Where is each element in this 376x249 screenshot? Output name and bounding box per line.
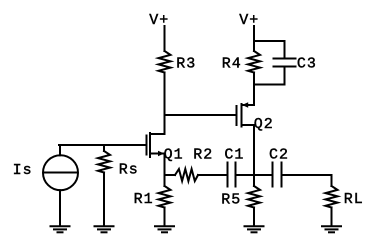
resistor R5: [248, 186, 260, 208]
wire V+ stub to R4: [253, 26, 255, 51]
wire R5 top: [253, 175, 255, 186]
wire Q1 drain node to Q2 gate: [165, 114, 237, 116]
wire signal node to R2: [165, 174, 176, 176]
svg-text:V+: V+: [149, 12, 169, 29]
wire R4 bottom and junction bar to Q2 drain: [254, 73, 285, 106]
ground (under Is): [50, 226, 71, 232]
wire R5 bottom: [253, 208, 255, 226]
wire V+ stub to R3: [164, 26, 166, 51]
wire RL bottom: [331, 208, 333, 226]
wire branch to C3 top: [254, 41, 285, 58]
capacitor C2: [273, 162, 282, 188]
svg-text:V+: V+: [239, 12, 259, 29]
svg-text:Is: Is: [13, 162, 33, 179]
svg-text:Rs: Rs: [119, 162, 139, 179]
resistor Rs: [98, 151, 110, 173]
resistor RL: [326, 186, 338, 208]
ground (under R5): [244, 226, 265, 232]
capacitor C1: [228, 162, 236, 188]
wire Is bottom: [59, 190, 61, 225]
svg-text:Q1: Q1: [164, 147, 184, 164]
wire Rs bottom: [103, 173, 105, 226]
svg-text:R2: R2: [193, 147, 213, 164]
svg-text:RL: RL: [344, 191, 364, 208]
transistor Q2: [230, 102, 254, 175]
wire R3 bottom to Q1 drain: [164, 73, 166, 135]
svg-text:C1: C1: [224, 147, 244, 164]
resistor R2: [175, 169, 198, 181]
current source Is: [43, 155, 78, 190]
wire R1 bottom: [164, 208, 166, 226]
wire C3 bottom: [284, 68, 286, 85]
resistor R1: [159, 186, 171, 208]
wire C1 to node and C2: [237, 174, 272, 176]
svg-text:R5: R5: [221, 192, 241, 209]
svg-text:R1: R1: [134, 191, 154, 208]
svg-text:Q2: Q2: [254, 116, 274, 133]
svg-text:C2: C2: [269, 147, 289, 164]
ground (under R1): [154, 226, 175, 232]
svg-text:C3: C3: [297, 56, 317, 73]
wire R1 top: [164, 175, 166, 186]
ground (under Rs): [94, 226, 115, 232]
wire Rs top: [103, 145, 105, 151]
transistor Q1: [59, 133, 165, 175]
wire C2 to RL: [283, 175, 332, 186]
capacitor C3: [273, 59, 297, 67]
wire Is top corner: [59, 145, 61, 155]
svg-text:R4: R4: [222, 56, 242, 73]
ground (under RL): [321, 226, 342, 232]
wire R2 to C1: [198, 174, 227, 176]
svg-text:R3: R3: [176, 56, 196, 73]
resistor R4: [248, 51, 260, 73]
resistor R3: [159, 51, 171, 73]
